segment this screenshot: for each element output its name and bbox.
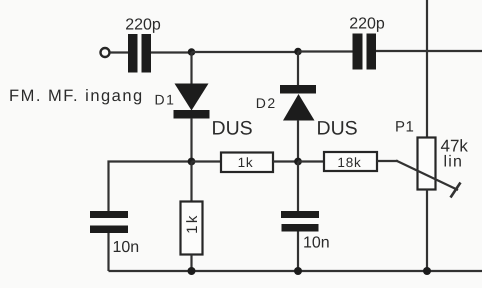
svg-text:220p: 220p <box>349 16 385 33</box>
wire node B to C2 <box>298 50 353 52</box>
potentiometer P1 47k lin <box>395 119 468 198</box>
wire C1 to node A <box>151 51 192 53</box>
diode D1 <box>155 52 253 162</box>
node C <box>188 158 196 166</box>
capacitor C3 10n (left) <box>90 211 139 256</box>
svg-text:1k: 1k <box>238 155 254 170</box>
node D <box>294 158 302 166</box>
resistor R2 1k <box>221 153 273 173</box>
node A <box>188 48 196 56</box>
svg-text:10n: 10n <box>113 239 140 256</box>
wire R2 to node D <box>273 160 298 162</box>
svg-text:D1: D1 <box>155 92 176 108</box>
resistor R3 18k <box>324 152 377 171</box>
capacitor C4 10n (right) <box>281 162 330 272</box>
svg-text:D2: D2 <box>256 95 277 111</box>
wire vertical supply line to P1 <box>426 0 428 138</box>
input terminal <box>101 48 110 57</box>
svg-text:18k: 18k <box>337 155 361 170</box>
wire node D to R3 <box>298 160 324 162</box>
diode D2 <box>256 52 358 162</box>
svg-text:1k: 1k <box>184 213 201 234</box>
wire C2 to right edge <box>376 50 482 52</box>
capacitor C2 220p <box>349 16 385 70</box>
capacitor C1 220p <box>125 17 161 73</box>
junction bottom of P1 <box>423 267 431 275</box>
wire C3 to bottom rail corner <box>107 233 109 271</box>
svg-text:P1: P1 <box>395 119 414 136</box>
svg-text:10n: 10n <box>303 235 330 252</box>
svg-text:220p: 220p <box>125 17 161 34</box>
wire node C to R2 <box>192 160 222 162</box>
junction bottom of C4 <box>294 267 302 275</box>
svg-text:FM. MF. ingang: FM. MF. ingang <box>9 87 144 105</box>
wire node A to node B (top rail) <box>192 51 299 53</box>
svg-text:DUS: DUS <box>317 118 358 140</box>
wire R3 to wiper <box>377 160 398 162</box>
node B <box>294 48 302 56</box>
wire terminal to C1 <box>110 51 128 53</box>
resistor R1 1k (vertical) <box>181 162 203 272</box>
junction bottom of R1 <box>188 267 196 275</box>
svg-text:lin: lin <box>444 154 464 171</box>
bottom rail <box>109 270 482 272</box>
wire P1 bottom to bottom rail <box>426 190 428 272</box>
wire middle rail left corner to node C <box>109 162 192 212</box>
svg-text:DUS: DUS <box>212 118 253 140</box>
